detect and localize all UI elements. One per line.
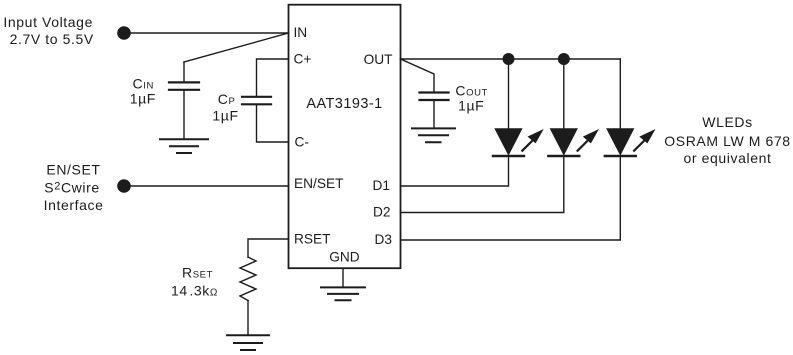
op-amp U1 AAT3193-1 IC body	[289, 5, 401, 269]
svg-text:GND: GND	[329, 250, 360, 265]
svg-text:EN/SET: EN/SET	[294, 176, 344, 191]
wire CP to C- pin	[257, 105, 289, 142]
wire OUT pin to COUT (diagonal)	[401, 59, 435, 91]
svg-text:AAT3193-1: AAT3193-1	[306, 96, 382, 112]
wire GND pin to ground	[342, 268, 344, 286]
resistor R_SET	[240, 257, 256, 301]
node junction dot LED1	[503, 53, 515, 65]
label EN/SET S2Cwire Interface	[44, 161, 104, 213]
LED D2	[548, 59, 599, 156]
ground (CIN)	[160, 139, 208, 153]
svg-text:2.7V to 5.5V: 2.7V to 5.5V	[10, 31, 94, 47]
wire C+ pin to CP	[257, 59, 289, 96]
svg-text:D3: D3	[375, 232, 393, 247]
svg-text:14.3kΩ: 14.3kΩ	[171, 283, 218, 299]
wire LED2 cathode to D2 pin	[401, 156, 564, 213]
svg-text:IN: IN	[294, 25, 308, 40]
wire resistor to ground	[247, 301, 249, 335]
EN/SET terminal	[117, 179, 131, 193]
svg-text:C-: C-	[295, 135, 309, 150]
label CP 1uF	[212, 91, 238, 124]
svg-text:or equivalent: or equivalent	[684, 150, 772, 166]
ground (RSET)	[227, 335, 269, 350]
svg-text:WLEDs: WLEDs	[702, 114, 752, 130]
LED D1	[493, 59, 544, 156]
wire LED3 cathode to D3 pin	[401, 156, 621, 240]
label COUT 1uF	[455, 82, 488, 113]
svg-text:S2Cwire: S2Cwire	[44, 179, 99, 195]
svg-text:1µF: 1µF	[212, 108, 238, 124]
svg-text:Interface: Interface	[44, 197, 104, 213]
svg-text:COUT: COUT	[455, 82, 488, 98]
wire input terminal to IN pin	[130, 32, 289, 34]
input terminal	[117, 26, 131, 40]
wire EN/SET terminal to EN/SET pin	[130, 185, 289, 187]
ground (GND)	[321, 287, 365, 300]
label RSET 14.3kOhm	[171, 265, 218, 299]
node junction dot LED2	[558, 53, 570, 65]
svg-text:CIN: CIN	[133, 76, 154, 92]
capacitor C_IN	[169, 62, 199, 138]
svg-text:D1: D1	[373, 178, 391, 193]
wire OUT rail	[401, 58, 621, 60]
wire LED1 cathode to D1 pin	[401, 156, 509, 186]
label Input Voltage 2.7V to 5.5V	[3, 14, 93, 47]
wire RSET pin to resistor	[248, 239, 289, 257]
svg-text:OSRAM LW M 678: OSRAM LW M 678	[664, 133, 790, 149]
svg-text:RSET: RSET	[182, 265, 213, 281]
wire IN pin to CIN (diagonal)	[184, 33, 289, 62]
label WLEDs OSRAM LW M 678 or equivalent	[664, 114, 790, 166]
LED D3	[605, 59, 656, 156]
svg-text:CP: CP	[218, 91, 236, 107]
svg-text:D2: D2	[373, 205, 391, 220]
capacitor C_P	[242, 97, 271, 105]
svg-text:1µF: 1µF	[458, 98, 484, 114]
ground (COUT)	[412, 128, 455, 142]
capacitor C_OUT	[420, 93, 449, 128]
svg-text:RSET: RSET	[294, 231, 331, 246]
svg-text:Input Voltage: Input Voltage	[3, 14, 93, 30]
label CIN 1uF	[130, 76, 156, 107]
svg-text:1µF: 1µF	[130, 90, 156, 106]
svg-text:EN/SET: EN/SET	[46, 161, 100, 177]
svg-text:OUT: OUT	[364, 52, 394, 67]
svg-text:C+: C+	[294, 51, 312, 66]
